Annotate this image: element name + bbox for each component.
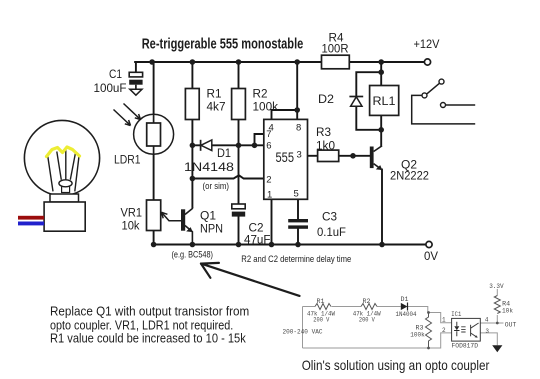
lamp blue wire xyxy=(18,222,44,226)
svg-text:6: 6 xyxy=(266,141,271,152)
lamp stem tube xyxy=(62,186,70,193)
resistor R2 xyxy=(232,89,246,120)
svg-text:C2: C2 xyxy=(249,222,264,234)
wire 555 supply pins 4 and 8 xyxy=(272,62,298,119)
wire LDR1 bottom to VR1 xyxy=(153,146,155,200)
opto LED xyxy=(454,322,459,337)
wire R4 node vertical xyxy=(380,62,382,86)
inset resistor R4 zigzag xyxy=(494,296,500,314)
svg-text:4: 4 xyxy=(485,317,489,324)
wire Q2 emitter to 0V rail xyxy=(381,170,383,245)
resistor R3 xyxy=(318,150,339,161)
wire D2 branch top xyxy=(356,72,381,96)
wire C1 stub from rail xyxy=(135,62,137,72)
svg-text:+12V: +12V xyxy=(414,39,440,51)
capacitor C2 xyxy=(232,204,245,217)
svg-text:200-240 VAC: 200-240 VAC xyxy=(283,329,323,336)
opto coupler IC1 box xyxy=(452,318,481,341)
wire R2 top xyxy=(238,62,240,89)
svg-text:Olin's solution using an opto: Olin's solution using an opto coupler xyxy=(302,357,490,373)
inset resistor R3 zigzag xyxy=(426,313,432,349)
svg-text:1: 1 xyxy=(442,317,446,324)
junction dot pin2 branch xyxy=(190,176,196,182)
lamp bulb glass xyxy=(24,120,99,195)
switch arm end circle xyxy=(439,79,444,84)
wire inset pin3 to ground xyxy=(480,333,497,345)
resistor R1 xyxy=(185,89,199,120)
wire R1 top xyxy=(191,62,193,89)
diode D2 xyxy=(349,97,363,107)
lamp red wire xyxy=(18,216,44,220)
transistor Q1 xyxy=(181,207,193,245)
MAIN_SCHEMATIC xyxy=(135,62,425,245)
svg-text:R1: R1 xyxy=(317,298,325,305)
svg-text:RL1: RL1 xyxy=(373,96,396,108)
wire +12V top rail right section xyxy=(349,61,424,63)
inset resistor R2 zigzag xyxy=(361,304,377,310)
wire pin2 with hop over C2 xyxy=(192,175,263,178)
terminal 0V xyxy=(426,241,432,247)
light arrow 2 into LDR1 xyxy=(124,104,141,120)
svg-text:D2: D2 xyxy=(318,94,334,106)
wire C3 bottom to 0V rail xyxy=(297,229,299,245)
wire inset bottom xyxy=(303,347,429,349)
svg-text:100uF: 100uF xyxy=(94,83,127,95)
lamp neck xyxy=(50,194,79,202)
diode D1 xyxy=(201,140,212,151)
junction dot 555 supply tie xyxy=(294,107,300,113)
svg-text:200 V: 200 V xyxy=(359,316,375,323)
junction dot D2 branch xyxy=(378,69,384,75)
wire inset D1 to corner xyxy=(408,307,428,313)
svg-text:4k7: 4k7 xyxy=(207,102,226,114)
lamp filament support lines xyxy=(48,149,79,191)
junction dot D1 cathode node xyxy=(190,143,196,149)
opto phototransistor xyxy=(471,323,479,338)
svg-text:1N4004: 1N4004 xyxy=(396,311,417,318)
svg-text:R2 and C2 determine delay time: R2 and C2 determine delay time xyxy=(241,254,351,265)
svg-text:D1: D1 xyxy=(401,296,409,303)
wire D2 bottom branch xyxy=(356,106,381,130)
svg-text:3.3V: 3.3V xyxy=(489,283,504,290)
svg-text:R1 value could be increased to: R1 value could be increased to 10 - 15k xyxy=(50,331,246,346)
svg-text:1k0: 1k0 xyxy=(316,141,335,153)
svg-text:7: 7 xyxy=(266,129,271,140)
resistor R4 xyxy=(322,55,350,69)
relay switch contacts xyxy=(412,83,476,124)
svg-text:200 V: 200 V xyxy=(313,316,329,323)
lamp base xyxy=(44,202,85,231)
wire pin7 pin6 tie jog xyxy=(255,134,264,145)
wire inset pin4 to OUT xyxy=(480,322,503,324)
capacitor C1 xyxy=(129,72,142,95)
switch common contact circle xyxy=(422,93,427,98)
svg-text:R2: R2 xyxy=(363,298,371,305)
wire VR1 bottom to 0V rail xyxy=(153,231,155,245)
svg-text:OUT: OUT xyxy=(505,321,517,328)
switch throw contact circle xyxy=(441,103,446,108)
svg-text:Replace Q1 with output transis: Replace Q1 with output transistor from xyxy=(50,304,249,319)
wire inset R2 to D1 xyxy=(377,306,401,308)
svg-text:0.1uF: 0.1uF xyxy=(317,227,346,239)
svg-text:10k: 10k xyxy=(502,308,513,315)
svg-text:555: 555 xyxy=(276,149,295,165)
svg-text:3: 3 xyxy=(485,328,489,335)
wire inset left vertical xyxy=(302,307,304,349)
wire 0V bottom rail xyxy=(153,244,426,246)
svg-text:R4: R4 xyxy=(502,301,510,308)
svg-text:Q1: Q1 xyxy=(200,210,216,222)
svg-text:1N4148: 1N4148 xyxy=(184,162,234,174)
wire 555 pin5 to C3 xyxy=(297,199,299,219)
svg-text:R4: R4 xyxy=(329,32,345,44)
svg-text:D1: D1 xyxy=(217,148,231,160)
svg-text:Re-triggerable 555 monostable: Re-triggerable 555 monostable xyxy=(142,35,304,52)
wire C2 top xyxy=(238,145,240,204)
svg-text:1: 1 xyxy=(267,190,272,201)
svg-text:2: 2 xyxy=(266,174,271,185)
svg-text:47uF: 47uF xyxy=(244,235,271,247)
junction dot RL1 bottom xyxy=(378,127,384,133)
svg-text:100R: 100R xyxy=(322,44,349,56)
wire +12V top rail left section xyxy=(135,61,321,63)
lamp filament glow zigzag xyxy=(47,147,80,157)
svg-text:VR1: VR1 xyxy=(121,207,143,219)
svg-text:10k: 10k xyxy=(122,221,140,233)
transistor Q2 xyxy=(370,146,383,170)
inset junction dot OUT xyxy=(496,322,499,325)
wire 555 pin1 to 0V rail xyxy=(271,199,273,244)
wire inset R4 stub xyxy=(496,289,498,323)
svg-text:(or sim): (or sim) xyxy=(203,181,230,191)
junction dot pin6 tie xyxy=(252,143,258,149)
wire RL1 bottom to collector node xyxy=(380,115,382,145)
junction dot R3 Q2 base xyxy=(350,153,356,159)
light arrow 1 into LDR1 xyxy=(114,110,131,126)
potentiometer VR1 xyxy=(147,200,182,231)
junction dots top rail xyxy=(149,59,384,65)
LDR LDR1 xyxy=(134,114,174,154)
opto light arrows xyxy=(461,327,465,332)
svg-text:(e.g. BC548): (e.g. BC548) xyxy=(172,249,214,259)
wire inset pin1 branch xyxy=(429,313,452,323)
svg-text:C3: C3 xyxy=(322,211,337,223)
wire R3 to Q2 base xyxy=(339,155,370,157)
wire LDR1 top xyxy=(153,62,155,123)
wire inset top left xyxy=(303,306,316,308)
svg-text:8: 8 xyxy=(296,122,301,133)
wire C2 bottom to 0V rail xyxy=(238,217,240,245)
svg-text:IC1: IC1 xyxy=(451,311,461,318)
svg-text:C1: C1 xyxy=(109,69,122,81)
junction dots 0V rail xyxy=(151,242,385,248)
wire D1 horizontal to pin 6 xyxy=(192,144,263,146)
terminal +12V xyxy=(424,59,430,65)
svg-text:LDR1: LDR1 xyxy=(114,155,141,167)
svg-text:R3: R3 xyxy=(416,324,424,331)
svg-text:NPN: NPN xyxy=(200,224,223,236)
wire inset pin2 branch xyxy=(429,333,452,348)
inset diode D1 xyxy=(401,303,408,311)
wire inset R1 to R2 xyxy=(332,306,362,308)
junction dot D1 R2 C2 xyxy=(236,143,242,149)
INSET_SCHEMATIC xyxy=(303,289,504,348)
lamp stem ellipse xyxy=(59,180,72,187)
svg-text:3: 3 xyxy=(297,150,302,161)
svg-text:100k: 100k xyxy=(253,102,279,114)
svg-text:FOD817D: FOD817D xyxy=(452,343,479,350)
relay coil RL1 xyxy=(370,86,399,116)
inset resistor R1 zigzag xyxy=(315,304,331,310)
big annotation arrow xyxy=(201,263,300,296)
wire R1 bottom to Q1 collector node xyxy=(191,120,193,208)
inset junction dot top xyxy=(427,311,430,314)
svg-text:2: 2 xyxy=(442,327,446,334)
op-amp U1 555 timer xyxy=(264,119,308,199)
wire pin3 to R3 xyxy=(308,155,318,157)
svg-text:5: 5 xyxy=(294,189,299,200)
inset junction dot bottom xyxy=(427,347,430,350)
svg-text:R2: R2 xyxy=(253,88,268,100)
svg-text:R3: R3 xyxy=(316,127,331,139)
svg-text:R1: R1 xyxy=(207,88,222,100)
svg-text:100k: 100k xyxy=(410,331,425,338)
wire R2 bottom to D1 node xyxy=(238,120,240,146)
svg-text:2N2222: 2N2222 xyxy=(390,170,429,182)
svg-text:0V: 0V xyxy=(424,251,438,263)
inset ground xyxy=(492,345,502,352)
capacitor C3 xyxy=(288,219,308,229)
